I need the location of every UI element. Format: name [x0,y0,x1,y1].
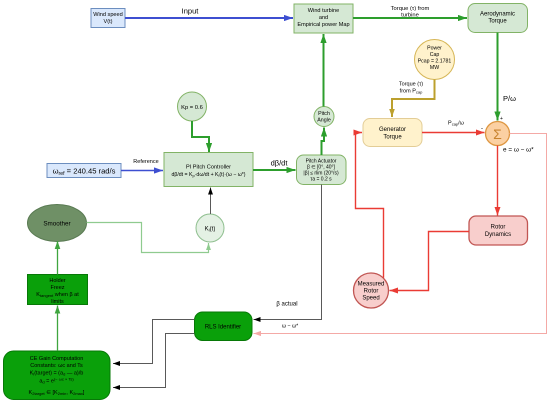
wire: Input (wind speed to wind turbine) [125,7,293,19]
wire: RLS to CE gain (upper) [113,320,195,364]
block: Generator Torque [363,119,422,147]
wire: measured rotor speed to generator torque [356,133,384,278]
block: Aerodynamic Torque [468,4,528,33]
svg-text:Torque: Torque [488,19,507,25]
block: Holder Freez Ktangent [28,275,88,306]
svg-text:Pcap/ω: Pcap/ω [448,121,465,127]
svg-text:ω − ω*: ω − ω* [282,324,298,330]
svg-text:Input: Input [182,7,200,16]
wire: holder to smoother [57,241,59,275]
svg-text:Torque (τ): Torque (τ) [399,82,423,88]
svg-text:dβ/dt: dβ/dt [271,159,289,168]
wire: rotor dynamics to measured rotor speed [390,232,470,291]
svg-text:limits: limits [51,299,64,305]
svg-text:Measured: Measured [358,282,385,288]
svg-text:Torque (τ) from: Torque (τ) from [391,6,430,12]
wire: RLS to CE gain (lower) [113,334,195,388]
svg-text:V(t): V(t) [103,19,112,25]
wire: pitch angle to wind turbine [323,34,325,107]
svg-text:Wind speed: Wind speed [93,12,123,18]
block: PI Pitch Controller [164,153,253,187]
wire: Torque (τ) from Pcap (power cap to generator torque) [392,80,435,118]
block: Wind speed V(t) input [91,9,125,28]
svg-text:Speed: Speed [362,296,379,302]
wire: pitch actuator to pitch angle [322,128,325,156]
block: Wind turbine and Empirical power Map [294,4,353,33]
svg-text:τa = 0.2 s: τa = 0.2 s [310,177,332,183]
svg-text:Pitch: Pitch [318,111,330,117]
block: Pitch Angle [314,107,334,127]
block: CE Gain Computation [4,351,111,400]
svg-text:e = ω − ω*: e = ω − ω* [503,147,534,154]
svg-text:Pcap = 2.1781: Pcap = 2.1781 [418,59,452,65]
svg-text:and: and [319,15,328,21]
summing junction Σ [486,122,510,146]
svg-text:Empirical power Map: Empirical power Map [297,22,349,28]
svg-text:Constants: ωc and Ts: Constants: ωc and Ts [30,363,83,369]
block: ωref = 240.45 rad/s reference [47,164,121,178]
wire: CE gain to holder [57,306,59,352]
svg-text:RLS Identifier: RLS Identifier [205,325,241,331]
svg-text:Angle: Angle [317,118,331,124]
block: Pitch Actuator [297,155,347,185]
svg-text:from Pcap: from Pcap [400,89,423,95]
svg-text:+: + [500,116,503,122]
svg-text:Power: Power [427,46,442,52]
block: RLS Identifier [195,312,253,341]
svg-text:-: - [481,126,483,132]
svg-text:β actual: β actual [276,302,297,308]
svg-text:Kp = 0.6: Kp = 0.6 [181,105,203,111]
wire: error feedback ω − ω* (summing junction to RLS identifier) [254,134,547,334]
svg-text:Freez: Freez [50,285,64,291]
block: Kp = 0.6 [178,92,207,121]
svg-text:Smoother: Smoother [43,220,70,227]
svg-text:Ki(t): Ki(t) [205,227,216,233]
svg-text:PI Pitch Controller: PI Pitch Controller [186,165,231,171]
wire: Ki(t) to PI controller [210,188,212,215]
wire: P/ω (aerodynamic torque to summing junction) [498,33,517,121]
svg-text:Cap: Cap [430,52,440,58]
svg-text:Rotor: Rotor [364,289,379,295]
svg-text:MW: MW [430,65,439,71]
wire: Pcap/ω (generator torque to summing junction) [422,121,485,133]
wire: Kp to PI controller [192,121,209,152]
svg-text:turbine: turbine [401,13,419,19]
block: Smoother [28,205,87,242]
wire: Torque (τ) from turbine [353,6,467,19]
svg-text:dβ/dt = Kp·dω/dt + Ki(t)·(ω −: dβ/dt = Kp·dω/dt + Ki(t)·(ω − ω*) [171,172,245,178]
svg-text:Holder: Holder [49,278,65,284]
wire: smoother to Ki(t) [87,223,209,253]
block: Power Cap circle [415,40,455,80]
svg-text:Reference: Reference [133,159,158,165]
svg-text:CE Gain Computation: CE Gain Computation [30,356,84,362]
svg-text:Aerodynamic: Aerodynamic [480,12,515,18]
block: Measured Rotor Speed [354,273,389,308]
svg-text:Dynamics: Dynamics [485,232,511,238]
svg-text:Generator: Generator [379,127,406,133]
svg-text:Wind turbine: Wind turbine [308,8,339,14]
wire: summing junction to rotor dynamics [497,146,499,216]
svg-text:P/ω: P/ω [503,94,516,103]
svg-text:Torque: Torque [383,135,402,141]
block: Rotor Dynamics [469,216,528,245]
svg-text:Ktangent when β at: Ktangent when β at [36,292,79,298]
svg-text:Σ: Σ [493,126,502,142]
wire: dβ/dt (PI controller to pitch actuator) [253,159,296,171]
svg-text:Rotor: Rotor [491,225,506,231]
wire: Reference (ωref to PI controller) [121,159,163,171]
block: Ki(t) [196,214,224,242]
wire: β actual (pitch actuator to RLS identifier) [254,185,322,330]
